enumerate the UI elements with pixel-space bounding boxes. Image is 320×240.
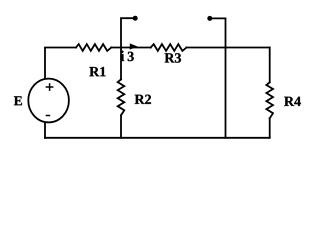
label i3: [121, 51, 125, 61]
minus sign of source: [46, 115, 51, 117]
resistor R1: [76, 44, 111, 51]
wire R3 to right branch: [187, 47, 270, 49]
resistor R3: [151, 44, 187, 51]
wire middle-right branch: [225, 48, 227, 138]
label R1: [89, 67, 105, 76]
node terminal 1 dot: [133, 16, 138, 21]
resistor R2: [118, 79, 125, 115]
wire R1 to node junction and R3: [111, 47, 150, 49]
wire terminal 1 stub: [121, 18, 135, 47]
label R4: [284, 97, 301, 106]
label R3: [165, 53, 181, 62]
voltage source E circle: [28, 79, 69, 123]
wire bottom: [45, 137, 270, 139]
wire top-left segment from source to R1: [45, 48, 76, 80]
wire terminal 2 stub: [211, 18, 226, 47]
wire R2 branch lower: [120, 115, 122, 138]
node terminal 2 dot: [207, 16, 212, 21]
label E: [14, 96, 22, 105]
wire right branch upper: [269, 48, 271, 83]
wire R2 branch upper: [120, 48, 122, 80]
wire right branch lower: [269, 118, 271, 138]
resistor R4: [266, 82, 273, 118]
wire source bottom: [44, 122, 46, 138]
current arrow i3 head: [130, 44, 136, 49]
plus sign of source: [46, 83, 54, 91]
label R2: [135, 95, 151, 104]
